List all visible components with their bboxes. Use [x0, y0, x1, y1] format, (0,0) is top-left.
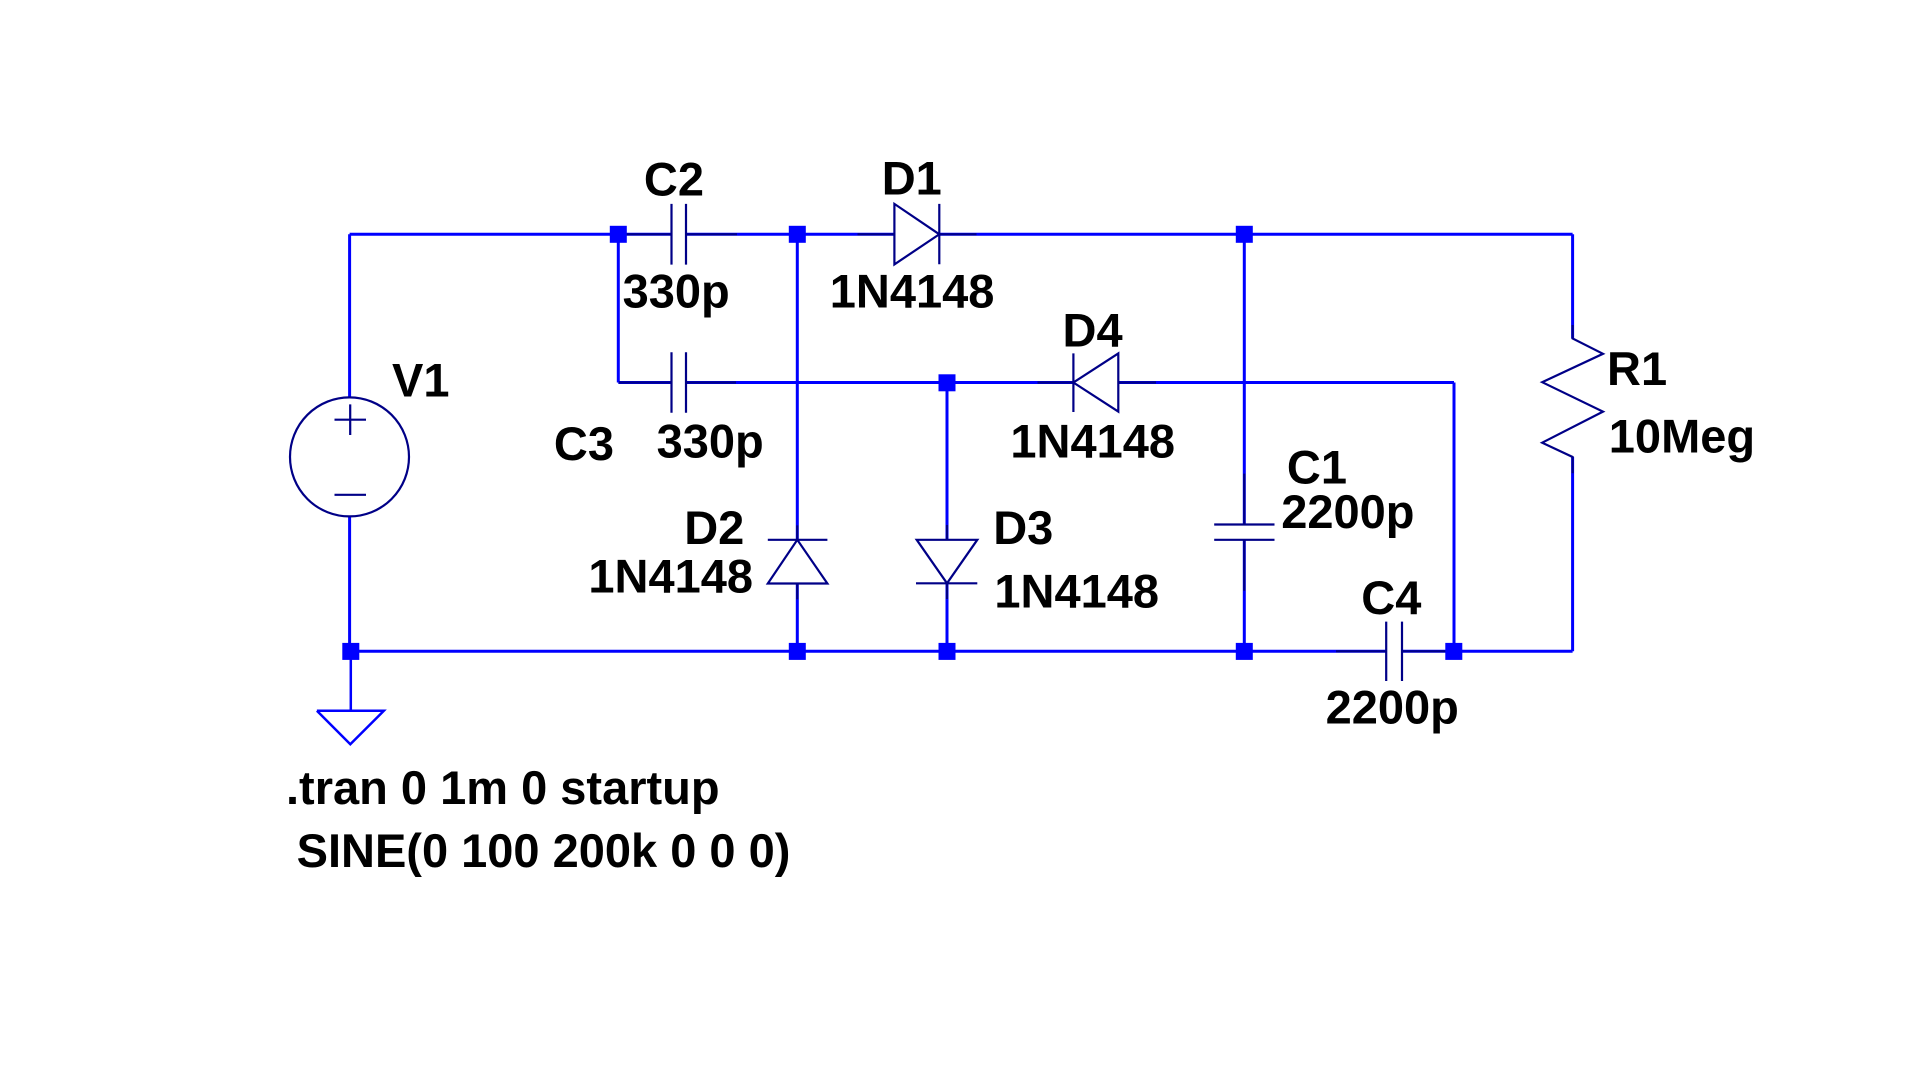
svg-text:1N4148: 1N4148	[830, 265, 995, 318]
svg-text:1N4148: 1N4148	[994, 564, 1159, 617]
svg-text:1N4148: 1N4148	[588, 549, 753, 602]
svg-text:330p: 330p	[657, 415, 764, 468]
svg-text:330p: 330p	[623, 265, 730, 318]
svg-text:R1: R1	[1607, 342, 1667, 395]
svg-text:2200p: 2200p	[1326, 681, 1459, 734]
svg-text:D1: D1	[882, 151, 942, 204]
svg-text:V1: V1	[392, 353, 450, 406]
svg-text:D3: D3	[993, 501, 1053, 554]
svg-text:C3: C3	[554, 417, 614, 470]
svg-text:.tran 0 1m 0 startup: .tran 0 1m 0 startup	[286, 761, 720, 814]
svg-text:C2: C2	[644, 153, 704, 206]
svg-text:D4: D4	[1063, 304, 1123, 357]
svg-text:SINE(0 100 200k 0 0 0): SINE(0 100 200k 0 0 0)	[297, 824, 791, 877]
svg-text:D2: D2	[684, 501, 744, 554]
svg-text:1N4148: 1N4148	[1010, 415, 1175, 468]
svg-text:C4: C4	[1361, 571, 1421, 624]
svg-text:2200p: 2200p	[1281, 485, 1414, 538]
svg-text:10Meg: 10Meg	[1609, 409, 1755, 462]
